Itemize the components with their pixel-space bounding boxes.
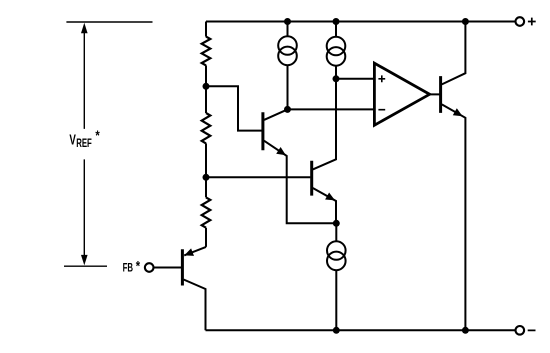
svg-text:FB: FB xyxy=(123,262,133,275)
svg-text:*: * xyxy=(95,128,99,143)
svg-text:REF: REF xyxy=(76,138,92,151)
svg-text:*: * xyxy=(136,258,140,273)
svg-text:V: V xyxy=(69,132,76,148)
